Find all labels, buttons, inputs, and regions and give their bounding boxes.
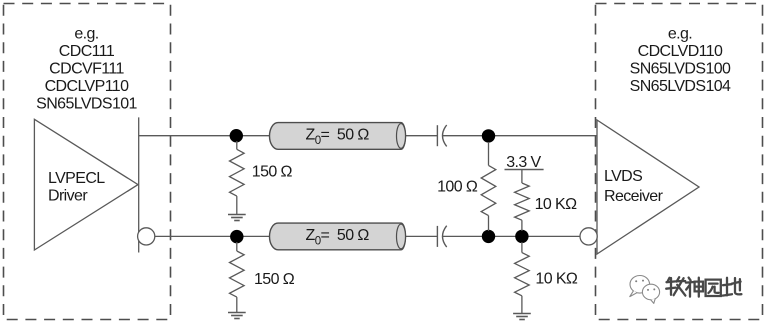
- svg-text:3.3 V: 3.3 V: [506, 154, 541, 171]
- svg-text:SN65LVDS101: SN65LVDS101: [36, 95, 137, 112]
- svg-text:CDC111: CDC111: [59, 43, 115, 60]
- node: top-right junction: [482, 129, 495, 142]
- svg-text:e.g.: e.g.: [74, 26, 98, 43]
- svg-text:LVPECL: LVPECL: [48, 170, 105, 187]
- driver output bar: [138, 117, 140, 252]
- wire bottom: driver bubble to transmission line: [155, 235, 272, 237]
- svg-text:SN65LVDS104: SN65LVDS104: [630, 78, 731, 95]
- receiver label: [604, 168, 664, 205]
- svg-text:LVDS: LVDS: [604, 168, 642, 185]
- driver label: [48, 170, 105, 205]
- wire top: driver to transmission line: [139, 135, 272, 137]
- watermark logo icon (two chat bubbles): [630, 276, 660, 304]
- op-amp U1 LVPECL driver triangle: [34, 119, 138, 250]
- ground (R1): [228, 215, 246, 221]
- svg-text:Driver: Driver: [48, 188, 88, 205]
- node: bottom-right junction B: [515, 230, 528, 243]
- left dashed box: [4, 4, 171, 320]
- svg-text:100 Ω: 100 Ω: [437, 178, 478, 195]
- node: bottom-right junction A: [482, 230, 495, 243]
- wire top: transmission line to capacitor: [402, 135, 437, 137]
- svg-text:10 KΩ: 10 KΩ: [535, 270, 578, 287]
- resistor R2 150 ohm (bottom): [230, 242, 245, 313]
- node: top-left junction: [230, 129, 243, 142]
- svg-text:e.g.: e.g.: [668, 26, 692, 43]
- receiver inverting input bubble: [580, 228, 597, 245]
- svg-text:CDCLVD110: CDCLVD110: [638, 43, 723, 60]
- 3.3 V supply rail: [505, 169, 544, 171]
- svg-text:SN65LVDS100: SN65LVDS100: [630, 60, 731, 77]
- transmission line Z0=50ohm bottom: [270, 223, 406, 250]
- watermark text strokes: [666, 277, 741, 296]
- resistor R1 150 ohm (top): [230, 141, 245, 215]
- watermark text emboss (white underlay): [668, 279, 743, 298]
- right box part list text: [630, 26, 731, 95]
- svg-text:CDCLVP110: CDCLVP110: [45, 78, 130, 95]
- svg-text:CDCVF111: CDCVF111: [49, 61, 124, 78]
- node: bottom-left junction: [230, 230, 243, 243]
- resistor R3 100 ohm (termination): [481, 142, 496, 231]
- svg-text:150 Ω: 150 Ω: [252, 163, 293, 180]
- driver inverted output bubble: [138, 228, 155, 245]
- svg-text:10 KΩ: 10 KΩ: [535, 196, 578, 213]
- svg-text:150 Ω: 150 Ω: [254, 271, 295, 288]
- wire bottom: transmission line to capacitor: [402, 235, 437, 237]
- left box part list text: [36, 26, 137, 113]
- capacitor C1 (top AC coupling): [437, 125, 446, 146]
- transmission line Z0=50ohm top: [270, 123, 406, 150]
- capacitor C2 (bottom AC coupling): [437, 226, 446, 247]
- wire bottom: capacitor to receiver bubble: [443, 235, 581, 237]
- right dashed box: [596, 4, 763, 320]
- ground (R2): [228, 313, 246, 319]
- resistor R5 10 Kohm (pulldown): [515, 242, 530, 314]
- ground (R5): [513, 314, 531, 320]
- op-amp U2 LVDS receiver triangle: [597, 120, 699, 254]
- svg-text:Receiver: Receiver: [604, 188, 664, 205]
- wire top: capacitor to receiver: [443, 135, 597, 137]
- resistor R4 10 Kohm (pullup): [515, 169, 530, 231]
